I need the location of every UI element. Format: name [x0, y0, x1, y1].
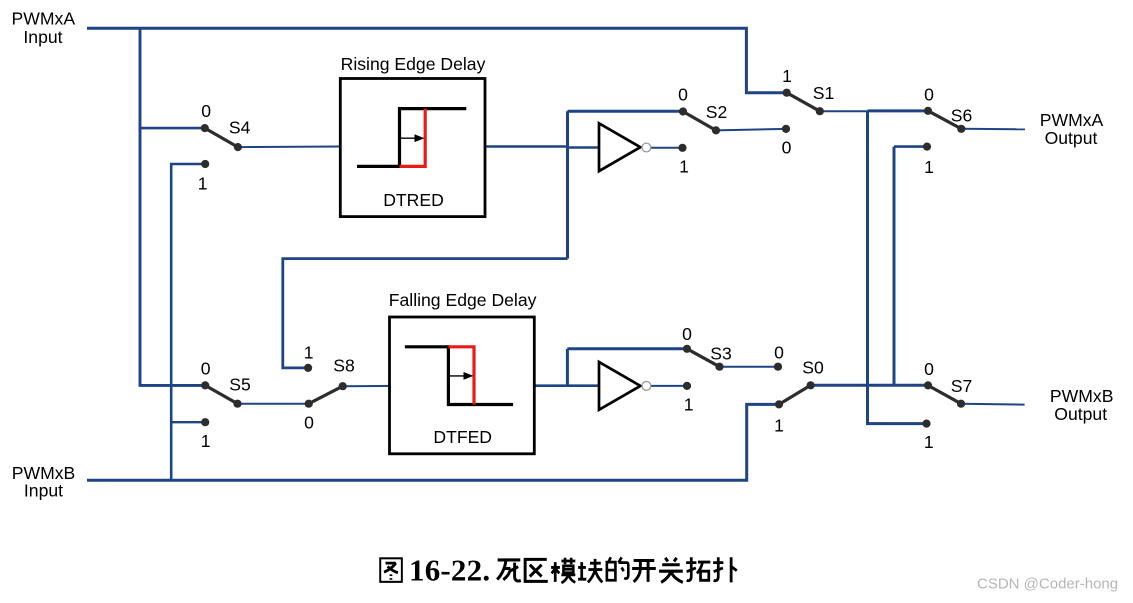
switch S6	[928, 111, 961, 129]
DTFED delay arrow	[449, 375, 466, 377]
caption glyph 区	[525, 559, 548, 581]
wire PWMxA input top bus	[87, 28, 787, 92]
svg-text:1: 1	[304, 343, 314, 363]
wire junction to S3 contact 0	[567, 347, 687, 350]
svg-text:S2: S2	[706, 102, 728, 122]
svg-text:S0: S0	[802, 358, 824, 378]
svg-text:0: 0	[201, 101, 211, 121]
svg-text:0: 0	[924, 84, 934, 104]
svg-text:S3: S3	[710, 344, 732, 364]
svg-text:0: 0	[924, 359, 934, 379]
DTFED waveform red delayed edge	[448, 347, 474, 405]
svg-text:0: 0	[782, 138, 792, 158]
svg-text:S7: S7	[951, 376, 973, 396]
wire inverter A output to S2 contact 1	[651, 147, 683, 149]
svg-text:1: 1	[924, 157, 934, 177]
svg-text:S6: S6	[951, 106, 973, 126]
wire S3 pivot to S0 contact 0	[720, 366, 779, 368]
wire DTRED output to junction	[485, 145, 568, 148]
falling edge delay block DTFED	[389, 290, 537, 454]
wire junction to inverter A input	[568, 146, 600, 149]
svg-text:PWMxA: PWMxA	[1040, 110, 1104, 130]
rising edge delay block DTRED	[340, 54, 485, 217]
caption glyph 块	[578, 559, 602, 583]
wire S8 pivot to DTFED input	[343, 385, 390, 387]
svg-text:CSDN @Coder-hong: CSDN @Coder-hong	[977, 576, 1118, 593]
wire junction vertical at DTRED output	[566, 111, 569, 258]
switch S3	[687, 349, 720, 367]
switch S4	[205, 128, 238, 147]
svg-text:Output: Output	[1054, 404, 1107, 424]
svg-text:0: 0	[201, 359, 211, 379]
DTRED waveform red delayed edge	[400, 109, 426, 167]
wire A-path vertical to S7 contact 1	[868, 111, 927, 424]
wire S1 pivot stub	[820, 110, 868, 112]
switch S0	[779, 385, 811, 404]
svg-text:1: 1	[684, 394, 694, 414]
caption: 图 16-22. 死区模块的开关拓扑	[380, 553, 737, 588]
wire S5 pivot to S8 contact 0	[238, 403, 309, 405]
wire S0 pivot to S7 contact 0	[811, 384, 928, 387]
caption glyph 扑	[713, 557, 737, 582]
svg-text:S1: S1	[813, 83, 835, 103]
wire S4 contact 1 to PWMxB bus	[171, 164, 205, 480]
svg-text:0: 0	[774, 343, 784, 363]
inverter B	[599, 362, 651, 410]
wire S6 contact 1 vertical to B path	[893, 147, 896, 386]
switch S1	[787, 93, 820, 112]
caption glyph 死	[497, 560, 521, 581]
svg-text:1: 1	[198, 174, 208, 194]
svg-text:Input: Input	[23, 27, 62, 47]
DTRED delay arrow	[400, 137, 418, 139]
wire S5 contact 1 branch	[171, 421, 205, 423]
wire junction to inverter B input	[567, 384, 599, 387]
svg-text:1: 1	[924, 432, 934, 452]
svg-text:16-22.: 16-22.	[409, 553, 490, 588]
wire to S6 contact 0	[868, 109, 929, 112]
wire DTRED feedback to S8 contact 1	[283, 259, 568, 368]
caption glyph 的	[607, 557, 628, 580]
svg-text:0: 0	[682, 324, 692, 344]
wire junction to S2 contact 0	[568, 110, 684, 113]
DTFED waveform black	[405, 347, 513, 405]
DTRED waveform black	[357, 109, 466, 167]
svg-text:S8: S8	[333, 356, 355, 376]
svg-text:1: 1	[782, 66, 792, 86]
wire S6 pivot to PWMxA output	[961, 128, 1025, 131]
caption glyph 模	[551, 558, 575, 583]
wire branch to S4 contact 0	[140, 127, 205, 130]
svg-text:S5: S5	[229, 375, 251, 395]
svg-text:Rising Edge Delay: Rising Edge Delay	[341, 54, 486, 74]
caption glyph 拓	[686, 557, 710, 580]
switch S5	[205, 385, 237, 403]
caption glyph 图	[380, 558, 402, 582]
switch S7	[928, 385, 961, 403]
inverter A	[599, 123, 651, 171]
caption glyph 关	[659, 558, 683, 583]
wire S2 pivot to S1 contact 0	[716, 129, 786, 131]
wire PWMxA vertical branch to S5 contact 0	[140, 28, 205, 385]
svg-text:S4: S4	[229, 118, 251, 138]
svg-text:1: 1	[679, 156, 689, 176]
svg-text:1: 1	[774, 416, 784, 436]
wire inverter B output to S3 contact 1	[651, 385, 687, 387]
wire DTFED output to junction	[534, 384, 567, 387]
svg-text:Input: Input	[24, 481, 63, 501]
wire junction vertical at DTFED output	[566, 349, 569, 386]
svg-text:DTFED: DTFED	[433, 427, 492, 447]
svg-text:Output: Output	[1045, 128, 1098, 148]
wire S6 contact 1 branch	[894, 145, 927, 148]
caption glyph 开	[632, 560, 656, 581]
svg-text:PWMxA: PWMxA	[12, 8, 76, 28]
svg-text:0: 0	[678, 85, 688, 105]
switch S2	[683, 112, 716, 131]
wire S4 pivot to DTRED input	[238, 146, 340, 149]
svg-text:DTRED: DTRED	[383, 190, 444, 210]
svg-text:Falling Edge Delay: Falling Edge Delay	[389, 290, 537, 310]
svg-text:1: 1	[201, 431, 211, 451]
svg-text:0: 0	[304, 412, 314, 432]
wire PWMxB input bottom bus	[87, 404, 779, 480]
wire S7 pivot to PWMxB output	[961, 403, 1025, 406]
switch S8	[309, 386, 343, 404]
